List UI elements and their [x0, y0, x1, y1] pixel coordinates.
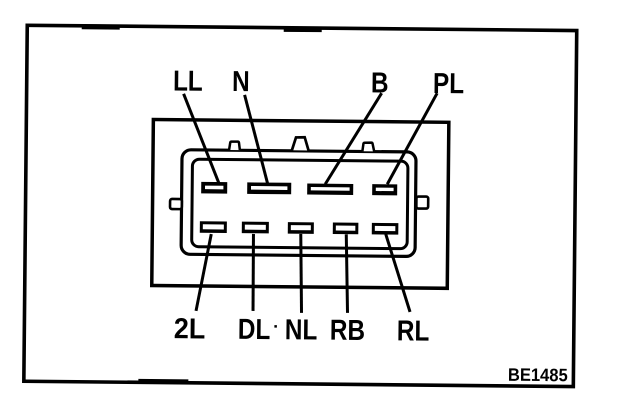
leader line pin 2L to label 2L — [196, 234, 211, 311]
leader line pin RB to label RB — [346, 234, 349, 313]
svg-text:RB: RB — [330, 314, 365, 347]
right side tab — [416, 197, 428, 209]
scan thick patch on outer frame top-middle — [284, 27, 322, 32]
pin LL (top row) — [201, 182, 227, 194]
pin 2L (bottom row) — [200, 221, 227, 233]
top lock tab 3 — [362, 142, 374, 151]
svg-text:2L: 2L — [174, 312, 206, 344]
scan noise dot — [274, 325, 277, 328]
leader line label N to pin N — [244, 95, 269, 184]
leader line pin DL to label DL — [253, 234, 254, 311]
top lock tab 2 — [292, 137, 309, 150]
pin RL (bottom row) — [372, 223, 399, 235]
leader line label LL to pin LL — [183, 94, 220, 184]
pin B (top row) — [307, 184, 353, 195]
leader line pin NL to label NL — [300, 234, 302, 313]
svg-text:DL: DL — [238, 313, 271, 346]
pin PL (top row) — [372, 184, 397, 195]
top lock tab 1 — [229, 142, 240, 151]
outer figure frame — [24, 25, 577, 386]
pin NL (bottom row) — [288, 222, 314, 234]
svg-text:N: N — [232, 65, 250, 98]
pin RB (bottom row) — [333, 223, 359, 235]
leader line pin RL to label RL — [385, 234, 411, 312]
leader line label B to pin B — [325, 93, 381, 185]
svg-text:PL: PL — [433, 67, 464, 100]
pin DL (bottom row) — [242, 222, 269, 234]
connector body outer rounded outline — [181, 150, 416, 257]
svg-text:B: B — [371, 66, 389, 99]
leader line label PL to pin PL — [387, 93, 437, 185]
svg-text:LL: LL — [173, 64, 203, 97]
connector body inner rounded outline — [192, 159, 408, 249]
svg-text:RL: RL — [397, 314, 430, 347]
svg-text:NL: NL — [285, 313, 318, 346]
svg-text:BE1485: BE1485 — [508, 364, 568, 385]
connector housing rectangle — [152, 119, 449, 288]
left side tab — [170, 199, 182, 209]
pin N (top row) — [247, 182, 291, 194]
scan thick patch on outer frame bottom — [138, 379, 188, 384]
scan thick patch on outer frame top-left — [82, 24, 120, 29]
